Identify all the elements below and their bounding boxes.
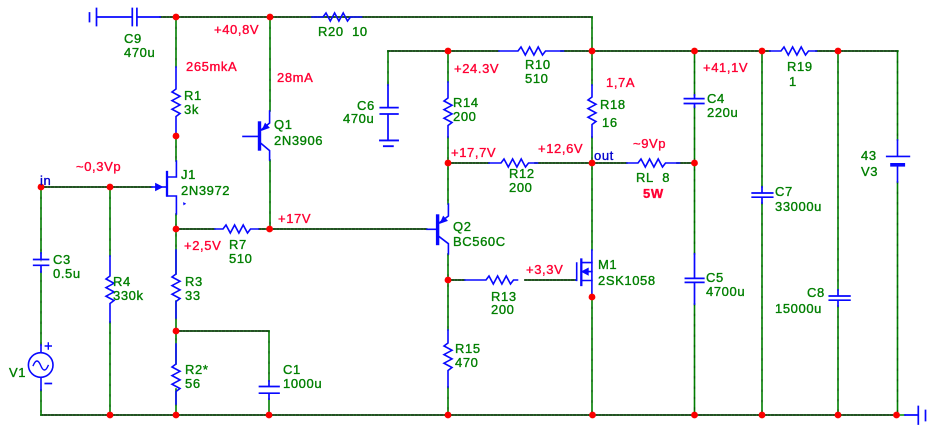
capacitor C4 xyxy=(684,95,703,107)
wire column C7 xyxy=(761,51,763,415)
node R3 bottom xyxy=(173,328,180,335)
svg-text:R2*: R2* xyxy=(185,362,208,377)
node M1 source xyxy=(589,294,596,301)
mosfet M1 xyxy=(576,250,592,297)
node gnd R4 xyxy=(107,412,114,419)
svg-text:200: 200 xyxy=(509,180,533,195)
svg-text:0.5u: 0.5u xyxy=(53,266,81,281)
svg-text:+2,5V: +2,5V xyxy=(184,238,221,253)
resistor R19 xyxy=(770,47,816,55)
node Q2 collector xyxy=(445,277,452,284)
wire out rail xyxy=(448,162,695,164)
wire R2 C1 row xyxy=(176,330,269,332)
resistor R13 xyxy=(465,276,517,284)
capacitor C8 xyxy=(829,290,850,306)
svg-text:C4: C4 xyxy=(707,91,725,106)
svg-text:BC560C: BC560C xyxy=(453,234,506,249)
capacitor C5 xyxy=(685,254,703,304)
wire column C8 xyxy=(837,51,839,415)
node gnd C5 xyxy=(691,412,698,419)
svg-text:R1: R1 xyxy=(184,88,202,103)
svg-text:510: 510 xyxy=(525,71,549,86)
svg-text:265mkA: 265mkA xyxy=(186,59,237,74)
wire column V3 battery xyxy=(897,51,899,415)
svg-text:2SK1058: 2SK1058 xyxy=(598,273,656,288)
node out xyxy=(589,160,596,167)
svg-text:33: 33 xyxy=(185,288,201,303)
svg-text:510: 510 xyxy=(229,251,253,266)
svg-text:in: in xyxy=(40,173,51,188)
resistor R3 xyxy=(172,250,180,318)
svg-text:C5: C5 xyxy=(706,270,724,285)
node +17,7V xyxy=(445,160,452,167)
svg-text:200: 200 xyxy=(491,302,515,317)
node R4 top xyxy=(107,184,114,191)
svg-text:+41,1V: +41,1V xyxy=(703,60,748,75)
node gnd V3 xyxy=(893,412,900,419)
svg-text:R14: R14 xyxy=(453,95,479,110)
svg-text:2N3906: 2N3906 xyxy=(274,133,323,148)
svg-text:R3: R3 xyxy=(185,274,203,289)
wire column V1 xyxy=(40,187,42,415)
resistor R7 xyxy=(215,225,259,233)
svg-text:R12: R12 xyxy=(509,166,535,181)
svg-text:R4: R4 xyxy=(113,274,131,289)
resistor R12 xyxy=(489,159,537,167)
svg-text:R7: R7 xyxy=(229,237,247,252)
capacitor C3 xyxy=(34,253,49,272)
resistor R1 xyxy=(172,67,180,136)
tie terminal bottom right xyxy=(905,407,926,425)
capacitor C9 xyxy=(132,9,160,26)
svg-text:Q1: Q1 xyxy=(274,117,293,132)
svg-text:C7: C7 xyxy=(775,184,793,199)
svg-text:~0,3Vp: ~0,3Vp xyxy=(76,159,121,174)
svg-text:V3: V3 xyxy=(861,164,878,179)
resistor R4 xyxy=(106,256,114,322)
transistor Q2 xyxy=(427,204,448,254)
svg-text:~9Vp: ~9Vp xyxy=(633,136,666,151)
svg-text:R10: R10 xyxy=(525,57,551,72)
svg-text:1000u: 1000u xyxy=(283,376,322,391)
node gnd R2 xyxy=(173,412,180,419)
svg-text:56: 56 xyxy=(185,376,201,391)
node gnd C7 xyxy=(759,412,766,419)
wire input xyxy=(41,186,152,188)
node rail2 R18 xyxy=(589,48,596,55)
svg-text:28mA: 28mA xyxy=(277,70,313,85)
transistor Q1 xyxy=(243,111,270,160)
capacitor C7 xyxy=(752,187,773,203)
wire column R1 J1 R3 R2 xyxy=(175,17,177,415)
node gnd C8 xyxy=(835,412,842,419)
wire bottom rail xyxy=(41,414,905,416)
svg-text:1: 1 xyxy=(789,74,797,89)
resistor R2 xyxy=(172,344,180,404)
svg-text:15000u: 15000u xyxy=(775,301,822,316)
svg-text:+12,6V: +12,6V xyxy=(538,141,583,156)
resistor R10 xyxy=(499,47,563,55)
node top R1 xyxy=(173,14,180,21)
svg-text:R20 10: R20 10 xyxy=(318,24,368,39)
tie terminal top left xyxy=(90,9,132,26)
node top Q1 xyxy=(267,14,274,21)
svg-text:4700u: 4700u xyxy=(706,284,745,299)
svg-text:+3,3V: +3,3V xyxy=(526,262,563,277)
battery V3 xyxy=(887,140,910,182)
svg-text:5W: 5W xyxy=(643,186,664,201)
svg-text:RL 8: RL 8 xyxy=(636,170,670,185)
wire +41V rail xyxy=(388,50,898,52)
svg-text:+17V: +17V xyxy=(278,211,311,226)
svg-text:M1: M1 xyxy=(598,257,617,272)
svg-text:+17,7V: +17,7V xyxy=(451,145,496,160)
capacitor C6 xyxy=(380,85,398,140)
wire column R18 M1 xyxy=(591,17,593,415)
node gnd R15 xyxy=(445,412,452,419)
resistor R15 xyxy=(444,330,452,387)
wire top rail xyxy=(160,16,592,18)
svg-text:R15: R15 xyxy=(455,341,481,356)
node gnd M1 xyxy=(589,412,596,419)
resistor R14 xyxy=(444,82,452,137)
svg-text:+24.3V: +24.3V xyxy=(454,61,499,76)
svg-text:Q2: Q2 xyxy=(453,219,472,234)
svg-text:330k: 330k xyxy=(113,288,144,303)
node R1 bottom xyxy=(173,133,180,140)
wire column R4 xyxy=(109,187,111,415)
node +17V xyxy=(266,226,273,233)
resistor RL xyxy=(627,159,679,167)
wire column C4 C5 xyxy=(694,51,696,415)
svg-text:1,7A: 1,7A xyxy=(606,75,635,90)
svg-text:3k: 3k xyxy=(184,102,199,117)
svg-text:16: 16 xyxy=(602,115,618,130)
node in xyxy=(38,184,45,191)
jfet J1 xyxy=(152,161,186,214)
svg-text:out: out xyxy=(594,148,614,163)
node rail2 R14 xyxy=(445,48,452,55)
wire column Q1 xyxy=(269,17,271,229)
wire +17V row xyxy=(176,228,427,230)
node rail2 C8 xyxy=(835,48,842,55)
wire column C1 xyxy=(268,331,270,415)
svg-text:470u: 470u xyxy=(124,45,155,60)
wire column R14 Q2 R15 xyxy=(447,51,449,415)
node gnd C1 xyxy=(266,412,273,419)
svg-text:C3: C3 xyxy=(53,252,71,267)
svg-text:33000u: 33000u xyxy=(775,199,822,214)
svg-text:C9: C9 xyxy=(124,31,142,46)
wire gate M1 row xyxy=(448,279,576,281)
svg-text:220u: 220u xyxy=(707,105,738,120)
svg-text:+40,8V: +40,8V xyxy=(214,22,259,37)
resistor R18 xyxy=(588,85,596,137)
svg-text:43: 43 xyxy=(861,148,877,163)
node rail2 C7 xyxy=(759,48,766,55)
ground xyxy=(380,140,398,146)
source V1 xyxy=(28,343,53,390)
svg-text:J1: J1 xyxy=(181,167,196,182)
node rail2 C4 xyxy=(691,48,698,55)
svg-text:2N3972: 2N3972 xyxy=(181,183,230,198)
svg-text:R18: R18 xyxy=(600,97,626,112)
wire column C6 xyxy=(387,51,389,85)
svg-text:200: 200 xyxy=(453,109,477,124)
svg-text:470: 470 xyxy=(455,355,479,370)
node J1 source xyxy=(173,226,180,233)
resistor R20 xyxy=(312,13,361,21)
capacitor C1 xyxy=(260,381,280,399)
svg-text:R19: R19 xyxy=(787,59,813,74)
svg-text:C8: C8 xyxy=(807,285,825,300)
node RL right xyxy=(691,160,698,167)
svg-text:C1: C1 xyxy=(283,362,301,377)
svg-text:V1: V1 xyxy=(9,365,26,380)
svg-text:470u: 470u xyxy=(343,111,374,126)
